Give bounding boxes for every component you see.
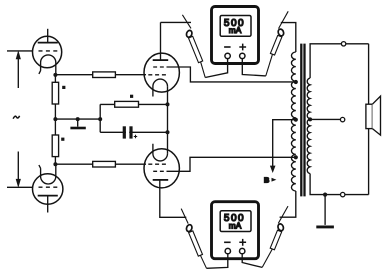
svg-text:mA: mA xyxy=(229,25,242,35)
svg-text:B: B xyxy=(264,176,269,185)
svg-text:mA: mA xyxy=(229,220,242,230)
